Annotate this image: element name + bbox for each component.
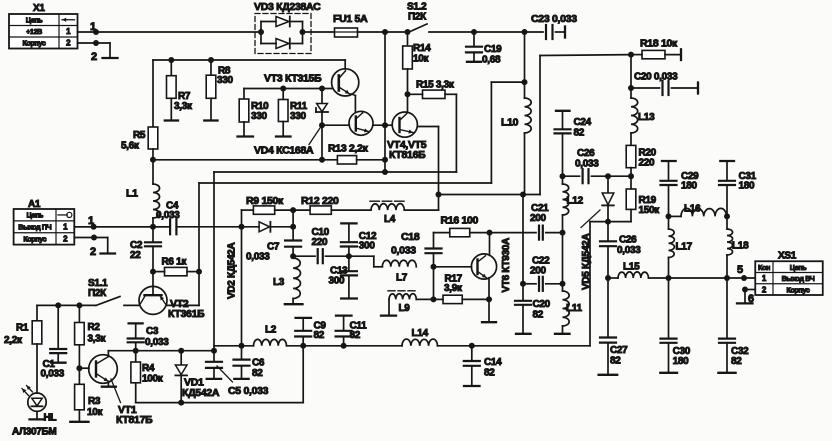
- svg-text:330: 330: [251, 111, 268, 122]
- svg-text:R13 2,2к: R13 2,2к: [328, 143, 369, 155]
- svg-text:R16 100: R16 100: [441, 215, 479, 227]
- svg-text:КТ361Б: КТ361Б: [168, 308, 205, 320]
- svg-text:Кон: Кон: [758, 263, 770, 272]
- svg-text:82: 82: [252, 368, 263, 379]
- svg-text:10к: 10к: [87, 407, 104, 418]
- svg-text:L18: L18: [732, 241, 749, 252]
- svg-text:VD4 КС168А: VD4 КС168А: [254, 145, 314, 157]
- svg-text:Выход ПЧ: Выход ПЧ: [18, 222, 51, 231]
- svg-text:3,9к: 3,9к: [444, 283, 463, 294]
- svg-text:2,2к: 2,2к: [4, 335, 23, 346]
- svg-text:100к: 100к: [142, 374, 164, 385]
- svg-text:82: 82: [314, 330, 325, 341]
- svg-text:300: 300: [359, 241, 376, 252]
- svg-text:0,033: 0,033: [391, 245, 416, 257]
- svg-text:0,033: 0,033: [41, 369, 65, 380]
- svg-text:C5 0,033: C5 0,033: [228, 385, 269, 397]
- svg-text:R4: R4: [142, 363, 155, 374]
- svg-text:C24: C24: [574, 117, 592, 128]
- svg-text:X1: X1: [33, 3, 45, 14]
- svg-text:82: 82: [610, 356, 621, 367]
- svg-text:R14: R14: [413, 43, 431, 54]
- svg-text:L13: L13: [638, 112, 655, 123]
- svg-text:VD2 КД542А: VD2 КД542А: [227, 243, 238, 299]
- svg-text:L17: L17: [676, 242, 693, 253]
- svg-text:330: 330: [290, 111, 307, 122]
- svg-text:КД542А: КД542А: [182, 387, 220, 399]
- svg-text:КТ817Б: КТ817Б: [116, 414, 153, 426]
- svg-text:VT6 КТ930А: VT6 КТ930А: [501, 238, 512, 293]
- svg-text:R18 10к: R18 10к: [640, 38, 678, 50]
- svg-text:6: 6: [748, 293, 754, 305]
- svg-text:R6 1к: R6 1к: [162, 257, 188, 268]
- svg-text:П2К: П2К: [408, 12, 427, 23]
- svg-text:0,68: 0,68: [482, 55, 501, 66]
- svg-text:300: 300: [329, 276, 346, 287]
- svg-text:0,033: 0,033: [575, 159, 599, 170]
- svg-text:C26: C26: [577, 148, 595, 159]
- svg-text:Корпус: Корпус: [23, 234, 46, 243]
- svg-text:200: 200: [530, 213, 547, 224]
- svg-text:C27: C27: [610, 345, 628, 356]
- svg-text:150к: 150к: [639, 205, 661, 216]
- svg-text:А1: А1: [28, 199, 41, 210]
- svg-text:L11: L11: [566, 303, 583, 314]
- svg-text:L9: L9: [399, 303, 411, 314]
- svg-text:5: 5: [737, 264, 743, 276]
- svg-text:2: 2: [90, 246, 96, 258]
- svg-text:0,033: 0,033: [617, 245, 641, 256]
- svg-text:2: 2: [91, 51, 97, 63]
- svg-text:220: 220: [639, 158, 656, 169]
- svg-text:C18: C18: [401, 231, 420, 243]
- svg-text:82: 82: [533, 310, 544, 321]
- svg-text:Корпус: Корпус: [787, 285, 810, 294]
- svg-text:C23 0,033: C23 0,033: [531, 13, 577, 25]
- svg-text:C20: C20: [533, 299, 551, 310]
- svg-text:10к: 10к: [413, 54, 430, 65]
- svg-text:XS1: XS1: [778, 251, 797, 262]
- svg-text:FU1 5А: FU1 5А: [333, 13, 368, 25]
- svg-text:R3: R3: [88, 396, 101, 407]
- svg-text:L7: L7: [396, 273, 408, 284]
- svg-text:R2: R2: [88, 322, 101, 333]
- svg-text:1: 1: [90, 21, 96, 33]
- svg-text:0,033: 0,033: [246, 252, 270, 263]
- svg-text:L10: L10: [501, 117, 519, 129]
- svg-text:200: 200: [530, 266, 547, 277]
- svg-text:VT3 КТ315Б: VT3 КТ315Б: [264, 73, 322, 85]
- svg-text:C3: C3: [146, 326, 159, 337]
- svg-text:П2К: П2К: [88, 288, 107, 299]
- svg-text:R5: R5: [133, 130, 146, 141]
- svg-text:L15: L15: [623, 262, 640, 273]
- svg-text:+12В: +12В: [26, 27, 42, 36]
- svg-text:Корпус: Корпус: [23, 38, 46, 47]
- svg-text:L4: L4: [384, 214, 396, 225]
- svg-text:C19: C19: [484, 44, 502, 55]
- svg-text:Цепь: Цепь: [26, 15, 43, 24]
- svg-text:330: 330: [217, 75, 234, 86]
- svg-text:VD3 КД238АС: VD3 КД238АС: [254, 1, 321, 13]
- svg-text:C6: C6: [252, 358, 265, 369]
- svg-text:HL: HL: [44, 413, 57, 424]
- svg-text:КТ816Б: КТ816Б: [389, 149, 426, 161]
- svg-text:0,033: 0,033: [145, 337, 169, 348]
- svg-text:3,3к: 3,3к: [88, 334, 107, 345]
- svg-text:180: 180: [681, 181, 698, 192]
- svg-text:C20 0,033: C20 0,033: [634, 72, 678, 83]
- svg-text:Цепь: Цепь: [27, 211, 44, 220]
- svg-text:5,6к: 5,6к: [121, 141, 140, 152]
- svg-text:L1: L1: [126, 188, 138, 200]
- svg-text:L2: L2: [265, 325, 277, 336]
- svg-text:Цепь: Цепь: [790, 263, 807, 272]
- svg-text:220: 220: [312, 237, 329, 248]
- svg-text:C26: C26: [619, 235, 637, 246]
- svg-text:180: 180: [739, 181, 756, 192]
- svg-text:L12: L12: [567, 196, 584, 207]
- svg-text:R15 3,3к: R15 3,3к: [416, 80, 455, 91]
- svg-text:R1: R1: [16, 323, 29, 334]
- svg-text:1: 1: [88, 215, 94, 227]
- svg-text:82: 82: [731, 356, 742, 367]
- svg-text:АЛ307БМ: АЛ307БМ: [12, 427, 56, 438]
- svg-text:C14: C14: [484, 357, 502, 368]
- svg-text:22: 22: [130, 250, 141, 261]
- svg-text:Выход ВЧ: Выход ВЧ: [782, 274, 815, 283]
- svg-text:L14: L14: [412, 328, 429, 339]
- svg-text:3,3к: 3,3к: [174, 101, 193, 112]
- svg-text:82: 82: [574, 128, 585, 139]
- svg-text:L3: L3: [273, 277, 285, 288]
- svg-text:180: 180: [673, 356, 690, 367]
- svg-text:82: 82: [484, 368, 495, 379]
